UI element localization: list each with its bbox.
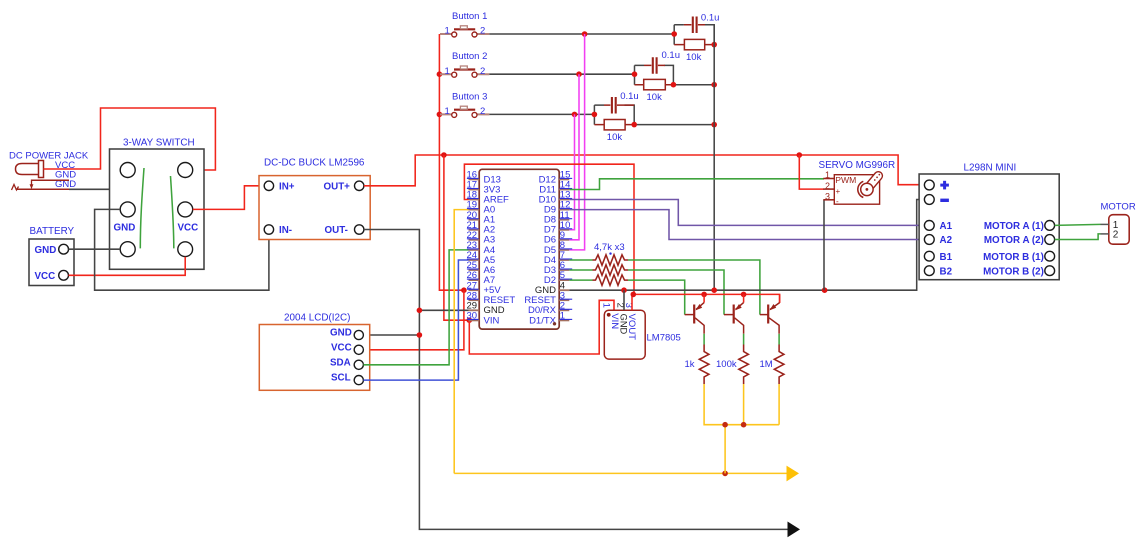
svg-text:2004 LCD(I2C): 2004 LCD(I2C) — [284, 313, 350, 324]
LCD pin GND — [354, 330, 363, 339]
L298N pin MOTOR A (1) — [1045, 221, 1055, 231]
svg-text:DC-DC BUCK LM2596: DC-DC BUCK LM2596 — [264, 158, 365, 169]
buck pin OUT+ — [355, 181, 364, 190]
switch pin circle top-left — [120, 163, 135, 178]
junction network2 resistor right — [671, 82, 677, 88]
junction 12V bus / servo drop — [797, 152, 803, 158]
svg-text:VIN: VIN — [609, 313, 620, 329]
svg-text:GND: GND — [114, 223, 136, 234]
svg-text:Button 3: Button 3 — [452, 91, 487, 102]
wire Arduino A0 to yellow arrow bus (yellow) — [454, 210, 468, 474]
wire +5V to LCD VCC (red) — [363, 290, 464, 350]
resistor R1 10k — [674, 39, 714, 63]
wire RN1-c to transistor Q1 base (green) — [628, 280, 685, 315]
L298N pin - — [924, 195, 934, 205]
svg-text:VCC: VCC — [35, 271, 56, 282]
decorative? small dot under label (drawn in source) — [609, 252, 611, 254]
junction button1 / magenta D5 — [582, 31, 588, 37]
svg-text:IN+: IN+ — [279, 181, 295, 192]
U1 pin 21 (A2) — [467, 220, 496, 236]
battery BT1 — [29, 226, 75, 286]
buck pin OUT- — [355, 225, 364, 234]
RC debounce network 1: connector wires (black) — [674, 25, 714, 45]
wire jack VCC to switch top-right (red) — [44, 108, 216, 170]
3-way switch S1 — [110, 138, 205, 270]
L298N pin B2 — [924, 266, 934, 276]
motor pin 2 stub — [1101, 233, 1109, 235]
wire Q2 collector (green segment) — [743, 334, 745, 345]
wire buck OUT+ 12V bus to servo and L298N + (red) — [364, 155, 925, 186]
svg-text:MOTOR B (1): MOTOR B (1) — [983, 252, 1044, 263]
resistor R6 1M — [760, 345, 784, 385]
junction network1 left / button wire — [671, 31, 677, 37]
wire jack GND sleeve (dark red) — [16, 188, 70, 190]
svg-text:VIN: VIN — [484, 315, 500, 326]
battery pin VCC — [59, 270, 69, 280]
junction VIN pin30 — [467, 317, 473, 323]
junction button3 / magenta D7 — [572, 112, 578, 118]
L298N pin + — [924, 180, 934, 190]
svg-text:GND: GND — [35, 245, 57, 256]
svg-text:0.1u: 0.1u — [701, 13, 720, 24]
U1 pin 12 (D9) — [544, 200, 572, 216]
junction network3 resistor right — [631, 122, 637, 128]
wire L298N MOTOR A (2) to motor pin2 (green) — [1055, 234, 1101, 240]
junction +5V bus / button3 — [437, 112, 443, 118]
U1 pin 7 (D4) — [544, 250, 572, 266]
RC debounce network 3: connector wires (black) — [594, 105, 714, 125]
junction button2 / magenta D6 — [576, 71, 582, 77]
svg-text:B1: B1 — [940, 252, 953, 263]
junction 5V rail / Q2 emitter — [741, 292, 747, 298]
U1 pin 28 (RESET) — [467, 290, 516, 306]
servo pin 3 stub — [823, 199, 834, 201]
svg-text:0.1u: 0.1u — [662, 50, 681, 61]
buck pin IN- — [264, 225, 273, 234]
U1 pin 15 (D12) — [539, 170, 573, 186]
wire Q1 collector (green segment) — [703, 334, 705, 345]
U1 pin 24 (A5) — [467, 250, 496, 266]
resistor RN1-a 4.7k (D4) — [593, 255, 629, 265]
DC-DC buck converter LM2596 U3 — [259, 158, 370, 240]
svg-text:3: 3 — [825, 192, 830, 202]
resistor RN1-b 4.7k (D3) — [593, 265, 629, 275]
wire R4 to yellow GND-sense bus (yellow) — [704, 384, 779, 425]
motor M1 — [1101, 202, 1136, 245]
svg-text:4,7k x3: 4,7k x3 — [594, 242, 625, 253]
L298N pin MOTOR B (2) — [1045, 266, 1055, 276]
battery pin GND — [59, 244, 69, 254]
U1 pin 18 (AREF) — [467, 190, 510, 206]
resistor R5 100k — [716, 345, 748, 385]
svg-text:OUT-: OUT- — [325, 225, 348, 236]
servo horn icon — [858, 170, 884, 198]
svg-text:1: 1 — [601, 303, 612, 308]
L298N pin A2 — [924, 235, 934, 245]
svg-text:2: 2 — [480, 66, 485, 77]
U1 pin 3 (RESET) — [524, 290, 572, 306]
svg-text:PWM: PWM — [835, 175, 856, 185]
junction GND bus / pulldown bus — [711, 287, 717, 293]
svg-text:LM7805: LM7805 — [647, 333, 681, 344]
resistor RN1-c 4.7k (D2) — [593, 275, 629, 285]
U1 pin1 marker dot — [553, 322, 556, 325]
switch pin circle mid-left — [120, 202, 135, 217]
wire Arduino D2 lead to RN1 (green) — [569, 279, 592, 281]
U1 pin 29 (GND) — [467, 300, 505, 316]
motor driver L298N MINI U4 — [919, 163, 1059, 280]
wire Arduino D11 to servo PWM (green) — [569, 179, 824, 190]
svg-text:1: 1 — [445, 106, 450, 117]
wire R6 to yellow bus (yellow) — [778, 384, 780, 425]
svg-text:10k: 10k — [686, 52, 702, 63]
wire Arduino D4 lead to RN1 (green) — [569, 259, 592, 261]
yellow arrow head — [787, 466, 800, 482]
wire jack GND pin stub (dark red) — [32, 179, 70, 181]
wire LCD SCL to Arduino A5 (blue) — [363, 260, 468, 380]
junction GND bus / LM7805 GND — [621, 287, 627, 293]
junction yellow bus / R5 — [741, 422, 747, 428]
L298N pin B1 — [924, 251, 934, 261]
U1 pin 26 (A7) — [467, 270, 496, 286]
svg-text:VCC: VCC — [178, 223, 199, 234]
wire 12V bus to servo + (red) — [799, 155, 824, 189]
svg-text:1: 1 — [560, 311, 565, 322]
svg-text:2: 2 — [480, 106, 485, 117]
wire OUT- net to Arduino GND pin29 (black) — [419, 309, 468, 311]
wire LM7805 GND to GND bus (black) — [623, 290, 625, 310]
svg-text:1: 1 — [825, 170, 830, 180]
svg-text:30: 30 — [467, 311, 478, 322]
wire L298N MOTOR A (1) to motor pin1 (green) — [1055, 224, 1101, 225]
wire button2 to Arduino D6 (magenta) — [569, 74, 579, 240]
U1 pin 9 (D6) — [544, 230, 572, 246]
junction network3 output on pulldown bus — [711, 122, 717, 128]
svg-text:SCL: SCL — [331, 373, 351, 384]
capacitor C2 0.1u — [644, 50, 680, 73]
svg-text:2: 2 — [825, 181, 830, 191]
buck pin IN+ — [264, 181, 273, 190]
U1 pin 25 (A6) — [467, 260, 496, 276]
svg-text:1: 1 — [445, 66, 450, 77]
transistor Q3 (PNP) — [760, 294, 780, 333]
svg-text:MOTOR A (1): MOTOR A (1) — [984, 221, 1044, 232]
U1 pin 23 (A4) — [467, 240, 496, 256]
L298N pin A1 — [924, 221, 934, 231]
U1 pin 10 (D7) — [544, 220, 572, 236]
wire Q3 collector (green segment) — [778, 334, 780, 345]
svg-text:BATTERY: BATTERY — [30, 226, 75, 237]
L298N label - — [940, 199, 949, 202]
U1 pin 4 (GND) — [535, 280, 569, 296]
svg-text:2: 2 — [1113, 230, 1119, 241]
wire yellow bus drop to arrow bus (yellow) — [724, 425, 726, 474]
resistor R2 10k — [635, 79, 674, 102]
junction +5V pin27 — [461, 287, 467, 293]
voltage regulator LM7805 U2 — [601, 303, 681, 360]
motor pin 1 stub — [1101, 223, 1109, 225]
wire RN1-b to transistor Q2 base (green) — [628, 270, 724, 315]
U1 pin 1 (D1/TX) — [529, 311, 572, 327]
junction yellow bus / drop — [722, 422, 728, 428]
wire pulldown bus to GND (black) — [713, 25, 715, 291]
U1 pin 11 (D8) — [544, 210, 572, 226]
wire button3 to Arduino D7 (magenta) — [569, 114, 574, 229]
wire LCD GND to OUT- net (black) — [363, 334, 419, 336]
capacitor C3 0.1u — [604, 91, 639, 114]
wire button2 pin2 to RC network 2 (black) — [489, 73, 634, 75]
wire battery GND to switch bottom-left (black) — [69, 248, 121, 250]
LCD pin SDA — [354, 360, 363, 369]
switch lever left (green) — [140, 168, 144, 248]
L298N pin MOTOR B (1) — [1045, 251, 1055, 261]
U1 pin 13 (D10) — [539, 190, 573, 206]
DC power jack J1 — [9, 151, 89, 191]
pushbutton Button 2 — [440, 51, 489, 77]
junction network3 left / button wire — [592, 112, 598, 118]
switch pin circle bottom-left — [120, 242, 135, 257]
wire servo GND pin3 to GND bus (black) — [823, 200, 825, 290]
Arduino (ATmega) U1 — [467, 169, 573, 329]
svg-text:10k: 10k — [607, 132, 623, 143]
svg-text:Button 2: Button 2 — [452, 51, 487, 62]
RC debounce network 2: connector wires (black) — [635, 65, 715, 84]
wire switch mid-left GND to buck IN- (black) — [95, 209, 269, 290]
resistor R3 10k — [594, 120, 634, 143]
junction network2 left / button wire — [632, 71, 638, 77]
svg-text:D1/TX: D1/TX — [529, 315, 557, 326]
U2 pin1 marker dot — [607, 313, 611, 317]
wire button1 pin2 to RC network 1 (black) — [489, 33, 674, 35]
2004 LCD (I2C) module — [259, 313, 369, 391]
transistor Q2 (PNP) — [724, 294, 744, 333]
svg-text:OUT+: OUT+ — [324, 181, 351, 192]
svg-text:B2: B2 — [940, 266, 953, 277]
svg-text:-: - — [836, 197, 839, 206]
U1 pin 22 (A3) — [467, 230, 496, 246]
svg-text:10k: 10k — [647, 92, 663, 103]
svg-text:SDA: SDA — [330, 357, 351, 368]
servo pin 2 stub — [823, 188, 834, 190]
junction 5V rail / Q1 emitter — [701, 292, 707, 298]
junction 12V bus / VIN drop — [441, 152, 447, 158]
svg-text:1k: 1k — [685, 359, 695, 370]
svg-text:MOTOR B (2): MOTOR B (2) — [983, 266, 1044, 277]
LCD pin VCC — [354, 345, 363, 354]
U1 pin 27 (+5V) — [467, 280, 502, 296]
wire button3 pin2 to RC network 3 (black) — [489, 113, 594, 115]
wire Arduino D10 to L298N A1 (purple) — [569, 200, 924, 226]
svg-text:A2: A2 — [940, 235, 953, 246]
wire switch mid-right VCC to buck IN+ (red) — [193, 186, 265, 210]
svg-text:VCC: VCC — [331, 342, 352, 353]
wire Arduino D9 to L298N A2 (purple) — [569, 210, 924, 240]
svg-text:1M: 1M — [760, 359, 773, 370]
servo pin 1 stub — [823, 178, 834, 180]
capacitor C1 0.1u — [684, 13, 720, 33]
svg-text:DC POWER JACK: DC POWER JACK — [9, 151, 89, 162]
switch pin circle top-right — [178, 163, 193, 178]
wire Arduino AREF to 5V rail (red) — [464, 164, 634, 294]
wire Arduino D3 lead to RN1 (green) — [569, 269, 592, 271]
svg-text:3-WAY SWITCH: 3-WAY SWITCH — [123, 138, 195, 149]
switch pin circle bottom-right — [178, 242, 193, 257]
LCD pin SCL — [354, 376, 363, 385]
L298N label + — [940, 184, 949, 187]
svg-text:Button 1: Button 1 — [452, 11, 487, 22]
junction +5V bus / button2 — [437, 71, 443, 77]
svg-text:A1: A1 — [940, 221, 953, 232]
U1 pin 16 (D13) — [467, 170, 501, 186]
svg-text:VOUT: VOUT — [626, 314, 637, 341]
svg-text:0.1u: 0.1u — [620, 91, 639, 102]
svg-text:2: 2 — [480, 26, 485, 37]
junction yellow bus — [722, 471, 728, 477]
yellow bus to arrow — [454, 472, 787, 474]
switch lever right (green) — [171, 176, 174, 248]
pushbutton Button 1 — [440, 11, 489, 37]
black arrow head — [788, 522, 801, 538]
svg-text:100k: 100k — [716, 359, 737, 370]
wire battery VCC to switch bottom-right (red) — [69, 257, 186, 276]
wire R5 to yellow bus (yellow) — [743, 384, 745, 425]
U1 pin 30 (VIN) — [467, 311, 500, 327]
wire 12V bus to Arduino VIN pin30 (red) — [444, 155, 469, 320]
U1 pin 20 (A1) — [467, 210, 496, 226]
L298N pin MOTOR A (2) — [1045, 235, 1055, 245]
U1 pin 6 (D3) — [544, 260, 572, 276]
U1 pin 8 (D5) — [544, 240, 572, 256]
wire RN1-a to transistor Q3 base (green) — [628, 260, 760, 315]
resistor R4 1k — [685, 345, 709, 385]
wire VIN to LM7805 pin1 (red) — [469, 300, 614, 354]
wire Arduino GND pin4 bus to L298N - (black) — [569, 200, 924, 291]
wire jack GND to switch top-left (black) — [69, 178, 128, 190]
svg-text:GND: GND — [330, 328, 352, 339]
svg-text:MOTOR: MOTOR — [1101, 202, 1136, 213]
svg-text:+: + — [836, 187, 841, 196]
U1 pin 5 (D2) — [544, 270, 572, 286]
U1 pin 17 (3V3) — [467, 180, 501, 196]
junction GND bus / servo GND drop — [822, 287, 828, 293]
pushbutton Button 3 — [440, 91, 489, 117]
junction VOUT / AREF wire — [631, 292, 637, 298]
wire button1 to Arduino D5 (magenta) — [569, 34, 584, 250]
wire LM7805 VOUT 5V rail to transistor emitters (red) — [632, 294, 780, 310]
transistor Q1 (PNP) — [685, 294, 704, 333]
junction network1 resistor output — [711, 42, 717, 48]
U1 pin 14 (D11) — [539, 180, 572, 196]
svg-text:MOTOR A (2): MOTOR A (2) — [984, 235, 1044, 246]
U1 pin 2 (D0/RX) — [528, 300, 572, 316]
wire +5V bus: buttons to Arduino +5V pin27 (red) — [439, 34, 464, 290]
svg-text:1: 1 — [445, 26, 450, 37]
svg-text:L298N MINI: L298N MINI — [964, 163, 1017, 174]
wire LCD SDA to Arduino A4 (green) — [363, 250, 468, 365]
junction LCD GND wire — [417, 332, 423, 338]
junction GND pin29 wire — [417, 308, 423, 314]
switch pin circle mid-right — [178, 202, 193, 217]
U1 pin 19 (A0) — [467, 200, 496, 216]
junction network2 output on pulldown bus — [711, 82, 717, 88]
svg-text:IN-: IN- — [279, 225, 292, 236]
wire buck OUT- to bottom black arrow (black) — [364, 230, 788, 530]
servo MG996R M2 — [819, 160, 896, 206]
